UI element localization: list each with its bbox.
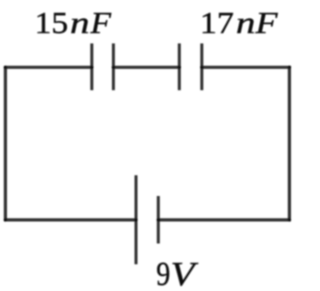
- junction: wire to C2 left plate: [178, 66, 181, 69]
- capacitor C1 left plate: [90, 43, 93, 90]
- junction: wire to battery short plate: [157, 218, 160, 221]
- battery V1 long plate: [135, 175, 138, 264]
- node: top-right corner: [288, 66, 291, 69]
- svg-text:V: V: [171, 256, 200, 291]
- wire: top-middle segment between capacitors: [113, 66, 179, 69]
- svg-text:15: 15: [35, 6, 69, 40]
- svg-text:n: n: [70, 6, 90, 40]
- svg-text:n: n: [236, 6, 256, 40]
- svg-text:F: F: [254, 6, 278, 40]
- svg-text:F: F: [89, 6, 111, 40]
- node: top-left corner: [4, 66, 7, 69]
- node: bottom-right corner: [288, 218, 291, 221]
- wire: top-right segment: [202, 66, 291, 69]
- junction: wire to C1 left plate: [90, 66, 93, 69]
- junction: wire to C2 right plate: [200, 66, 203, 69]
- wire: bottom-left segment: [4, 218, 136, 221]
- junction: wire to battery long plate: [134, 218, 137, 221]
- wire: top-left segment: [5, 66, 91, 69]
- wire: left vertical side: [4, 66, 7, 221]
- junction: wire to C1 right plate: [112, 66, 115, 69]
- wire: bottom-right segment: [158, 218, 290, 221]
- capacitor C2 right plate: [200, 43, 203, 90]
- svg-text:9: 9: [156, 256, 170, 291]
- capacitor C2 left plate: [178, 43, 181, 90]
- battery V1 short plate: [157, 196, 160, 244]
- wire: right vertical side: [288, 66, 291, 221]
- svg-text:17: 17: [200, 6, 234, 40]
- node: bottom-left corner: [4, 218, 7, 221]
- capacitor C1 right plate: [112, 43, 115, 90]
